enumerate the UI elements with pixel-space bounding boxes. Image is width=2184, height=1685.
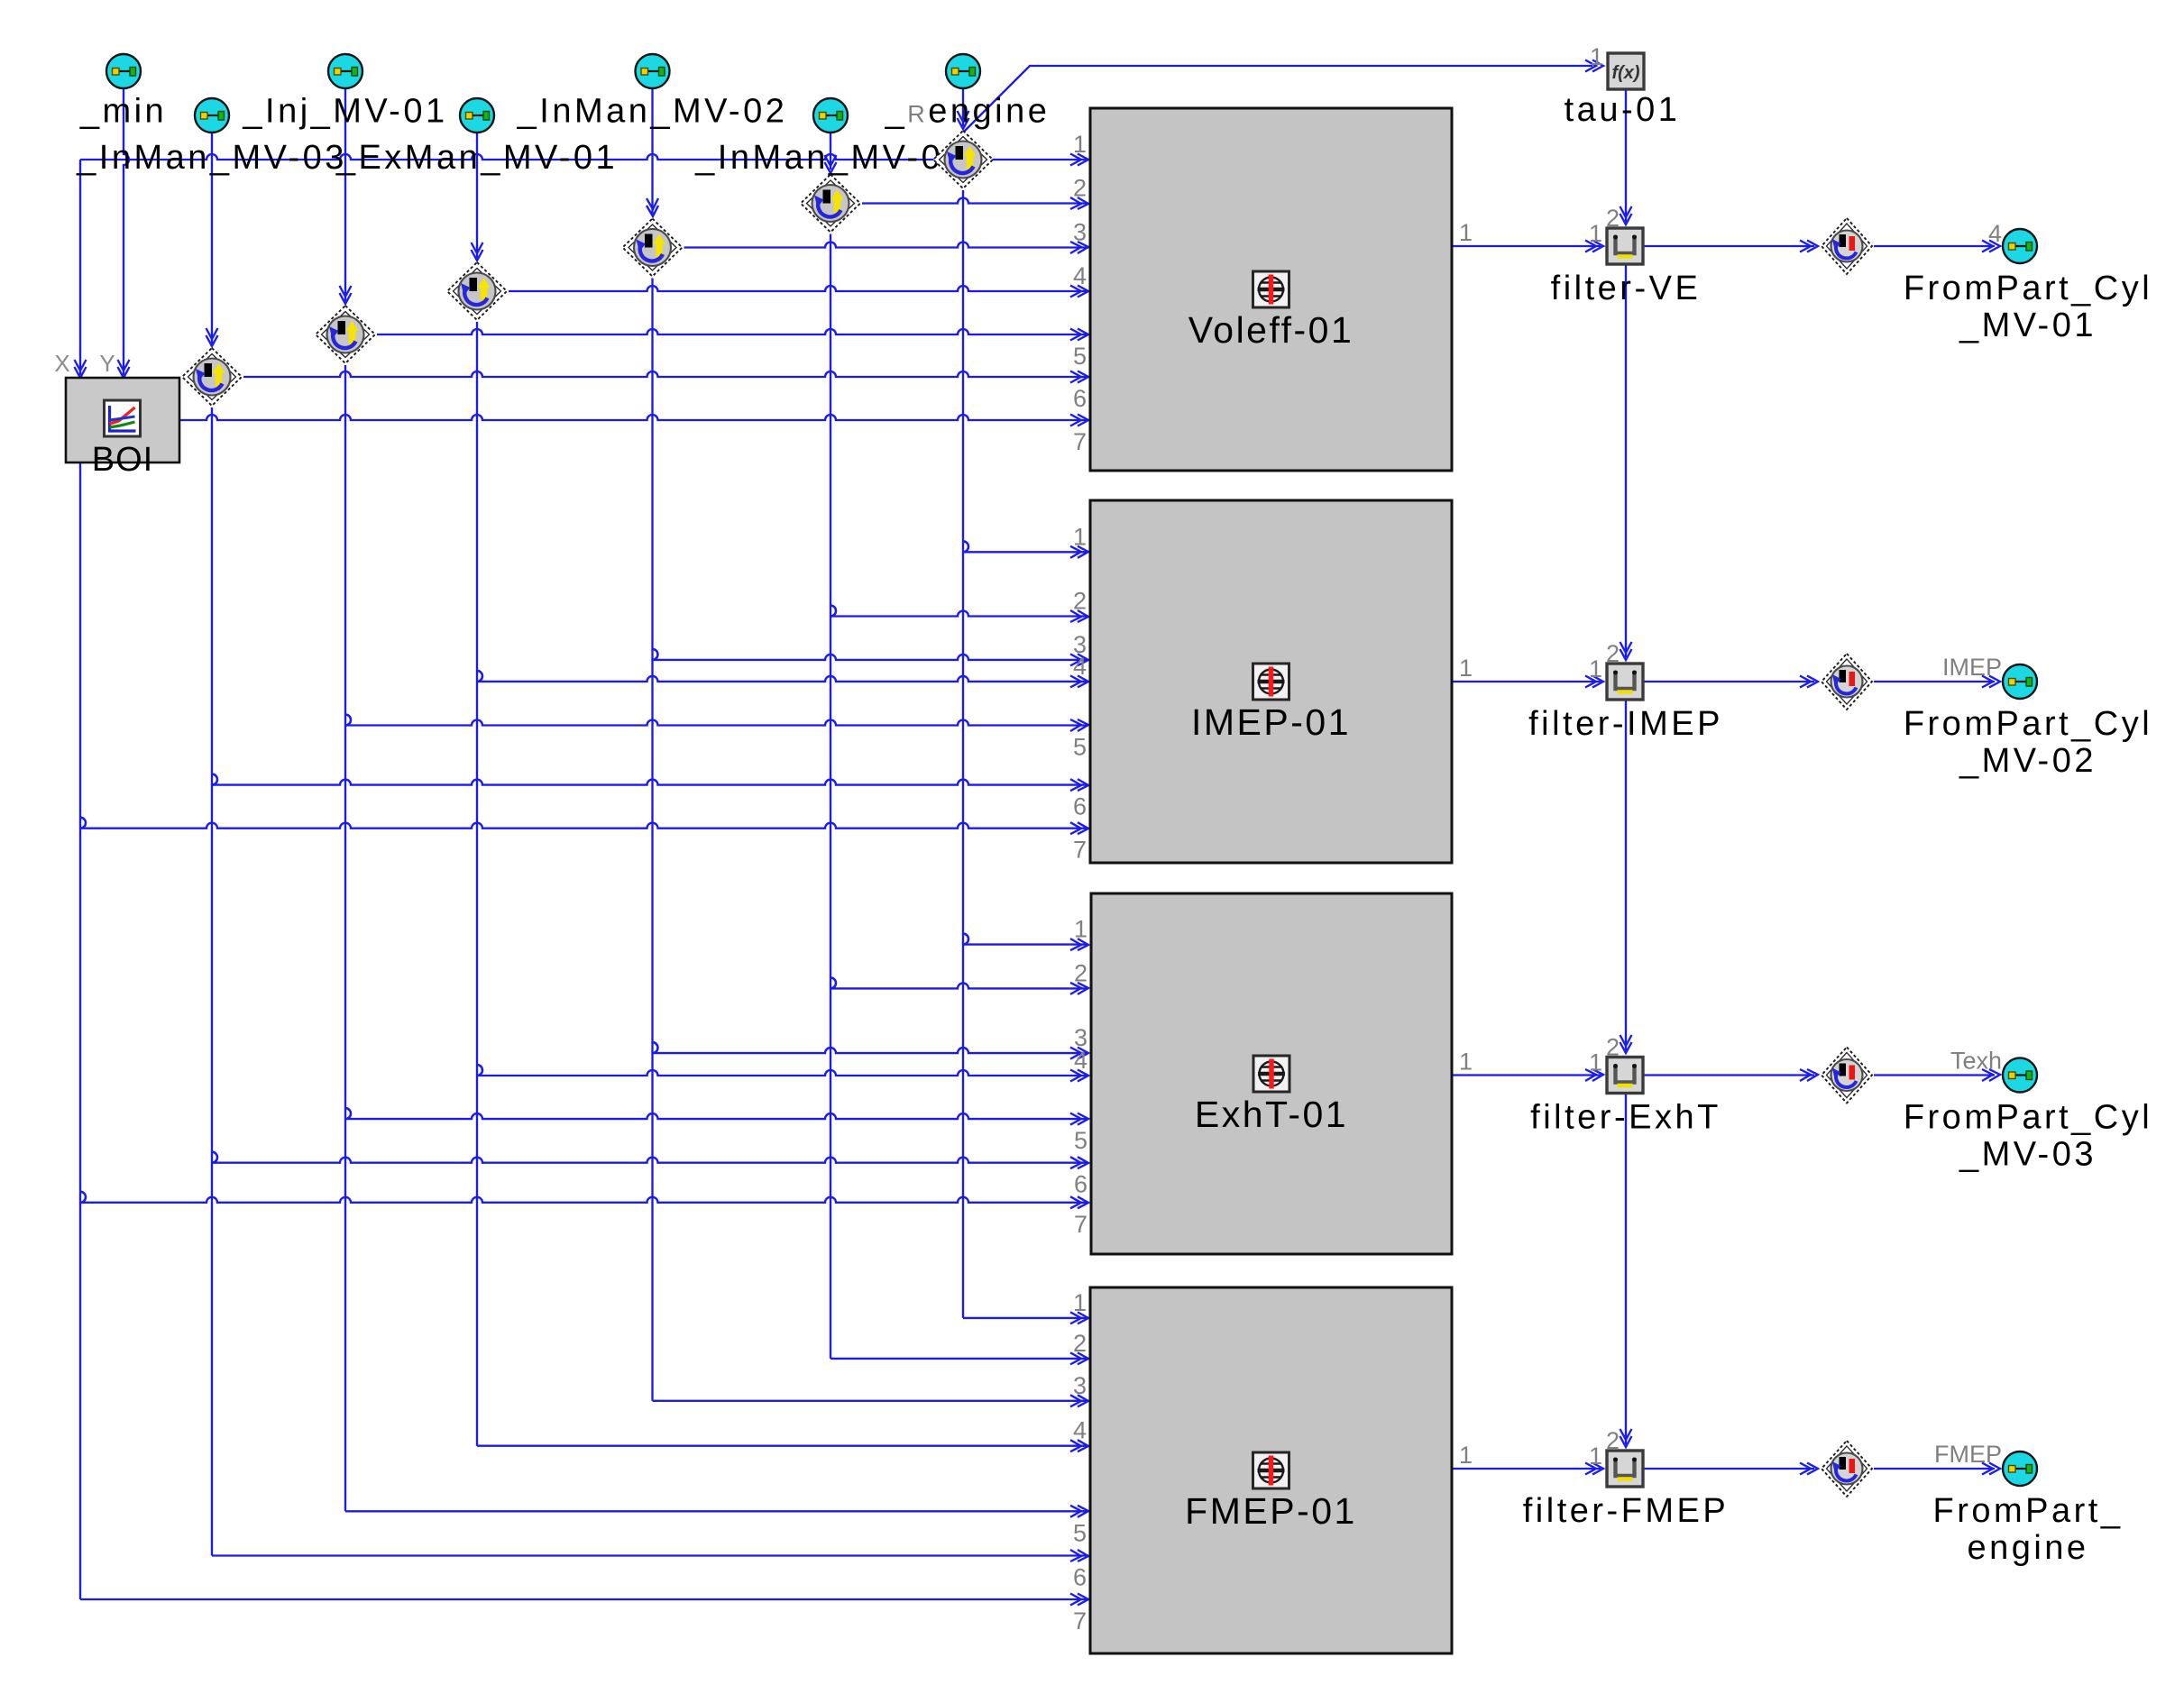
svg-text:1: 1 <box>1073 131 1087 158</box>
svg-text:3: 3 <box>1073 1372 1087 1399</box>
svg-text:Texh: Texh <box>1950 1048 2002 1075</box>
filter block filter-ExhT <box>1607 1058 1643 1094</box>
svg-text:2: 2 <box>1073 588 1087 615</box>
filter block filter-FMEP <box>1607 1451 1643 1487</box>
svg-text:Voleff-01: Voleff-01 <box>1188 309 1354 351</box>
svg-text:5: 5 <box>1073 343 1087 370</box>
wire: _Inj_MV-01 column from port to diamond <box>344 87 346 301</box>
svg-text:filter-ExhT: filter-ExhT <box>1530 1099 1721 1137</box>
wire: _min column down to BOI Y input <box>124 87 129 375</box>
svg-text:2: 2 <box>1606 640 1620 667</box>
svg-text:FMEP: FMEP <box>1934 1441 2002 1468</box>
svg-text:2: 2 <box>1073 1330 1087 1357</box>
wire: tau-01 output down to filter-VE <box>1625 88 1627 222</box>
svg-text:1: 1 <box>1589 1442 1602 1470</box>
svg-text:_min: _min <box>79 93 167 131</box>
wire: block output to filter-ExhT <box>1452 1074 1601 1076</box>
wire: _InMan_MV-03 column from port to diamond <box>211 132 213 343</box>
wire: diamond output row to Voleff port 4 (y=323.0) <box>509 286 1088 291</box>
svg-text:_MV-01: _MV-01 <box>1959 307 2097 344</box>
svg-text:1: 1 <box>1459 1049 1473 1076</box>
svg-text:IMEP-01: IMEP-01 <box>1191 701 1351 743</box>
wire: engine net row to Voleff port 1 (y=177) <box>80 154 1088 160</box>
svg-text:6: 6 <box>1074 1171 1087 1198</box>
wire: diamond output row to Voleff port 5 (y=371.0) <box>377 329 1088 334</box>
svg-text:_MV-02: _MV-02 <box>1959 742 2097 780</box>
svg-text:FromPart_Cyl: FromPart_Cyl <box>1904 270 2152 307</box>
input port engine <box>946 54 980 88</box>
svg-text:1: 1 <box>1590 43 1603 70</box>
wire: filter-ExhT to output converter <box>1643 1074 1814 1076</box>
svg-text:1: 1 <box>1589 220 1602 247</box>
svg-text:1: 1 <box>1459 655 1473 682</box>
wire: diamond output row to Voleff port 6 (y=418.0) <box>243 371 1088 377</box>
FromPart port (ExhT) <box>2003 1058 2037 1093</box>
svg-text:_InMan_MV-02: _InMan_MV-02 <box>517 93 788 131</box>
svg-text:X: X <box>54 350 69 377</box>
wire: BOI output to Voleff port 7 (y=466) <box>179 415 1088 420</box>
wire: column x=1068.0 branch to IMEP port 1 (y=612.3) <box>963 541 968 552</box>
block BOI <box>66 378 179 462</box>
svg-text:filter-IMEP: filter-IMEP <box>1528 705 1723 743</box>
wire: converter to FromPart port (ExhT) <box>1874 1074 1995 1076</box>
wire: column x=1068.0 branch to ExhT port 1 (y=1047.6) <box>963 934 968 945</box>
filter block filter-IMEP <box>1607 664 1643 700</box>
svg-text:5: 5 <box>1074 1127 1087 1154</box>
svg-text:_Rengine: _Rengine <box>885 93 1051 131</box>
wire: column x=89.0 branch to IMEP port 7 (y=918.7) <box>80 818 86 829</box>
svg-text:filter-FMEP: filter-FMEP <box>1523 1492 1730 1530</box>
input conversion diamond D3 <box>623 219 683 277</box>
svg-text:1: 1 <box>1589 1049 1602 1076</box>
svg-text:5: 5 <box>1073 734 1087 761</box>
wire: diamond output row to Voleff port 2 (y=225.5) <box>862 198 1088 204</box>
svg-text:_MV-03: _MV-03 <box>1959 1136 2097 1174</box>
svg-text:2: 2 <box>1606 1427 1620 1454</box>
input conversion diamond D2 <box>801 175 860 233</box>
wire: column x=921.0 branch to ExhT port 2 (y=1096.4) <box>830 977 836 988</box>
svg-text:7: 7 <box>1073 1607 1087 1635</box>
wire: column x=89 (engine net down-left branch, corner at y=177) <box>79 160 81 375</box>
wire: converter to FromPart port (VE) <box>1874 245 1995 247</box>
wire: column x=723.5 branch to IMEP port 3 (y=731.9) <box>653 649 658 660</box>
svg-text:Y: Y <box>99 350 115 377</box>
input port _InMan_MV-02 <box>636 54 670 88</box>
svg-text:_InMan_MV-03: _InMan_MV-03 <box>76 139 347 177</box>
FromPart port (VE) <box>2003 229 2037 263</box>
svg-text:engine: engine <box>1967 1529 2088 1567</box>
wire: tau net filter-IMEP to filter-ExhT <box>1625 700 1627 1050</box>
svg-text:4: 4 <box>1073 653 1087 680</box>
function block tau-01 <box>1608 53 1644 89</box>
wire: column x=723.5 branch to ExhT port 3 (y=1168.1) <box>653 1042 658 1053</box>
svg-text:1: 1 <box>1074 916 1087 943</box>
wire: _ExMan_MV-01 column from port to diamond <box>476 132 478 258</box>
input port _InMan_MV-04 <box>813 98 848 133</box>
wire: tau net filter-ExhT to filter-FMEP <box>1625 1094 1627 1445</box>
wire: block output to filter-IMEP <box>1452 681 1601 682</box>
svg-text:_ExMan_MV-01: _ExMan_MV-01 <box>335 139 618 177</box>
svg-text:2: 2 <box>1074 959 1087 986</box>
wire: tau net filter-VE to filter-IMEP <box>1625 264 1627 657</box>
block ExhT-01 <box>1091 893 1452 1254</box>
wire: column x=89.0 corner to FMEP port 7 (y=1774.0) <box>80 1598 1088 1600</box>
wire: column x=383.0 branch to IMEP port 5 (y=804.5) <box>345 715 351 726</box>
svg-text:6: 6 <box>1073 385 1087 412</box>
svg-text:1: 1 <box>1073 523 1087 550</box>
wire: diamond output row to Voleff port 3 (y=274.5) <box>684 243 1089 248</box>
svg-text:7: 7 <box>1073 837 1087 864</box>
svg-text:ExhT-01: ExhT-01 <box>1195 1094 1348 1135</box>
svg-text:4: 4 <box>1988 220 2002 247</box>
svg-text:tau-01: tau-01 <box>1565 91 1681 129</box>
wire: engine column from port to diamond <box>962 87 964 126</box>
wire: column x=235.0 corner to FMEP port 6 (y=1725.5) <box>212 1554 1088 1556</box>
input conversion diamond D6 <box>182 348 242 406</box>
svg-text:3: 3 <box>1073 219 1087 246</box>
wire: column x=235.0 branch to ExhT port 6 (y=1289.7) <box>212 1152 217 1163</box>
svg-text:FMEP-01: FMEP-01 <box>1185 1490 1357 1532</box>
input port _ExMan_MV-01 <box>460 98 494 133</box>
input port _Inj_MV-01 <box>328 54 362 88</box>
wire: converter to FromPart port (FMEP) <box>1874 1468 1995 1470</box>
wire: engine column below diamond <box>962 190 964 1318</box>
svg-text:7: 7 <box>1073 428 1087 455</box>
filter block filter-VE <box>1607 228 1643 264</box>
svg-text:6: 6 <box>1073 1564 1087 1591</box>
wire: column x=383.0 corner to FMEP port 5 (y=1676.3) <box>345 1510 1088 1512</box>
svg-text:1: 1 <box>1459 1442 1473 1469</box>
block FMEP-01 <box>1090 1287 1452 1653</box>
svg-text:4: 4 <box>1073 262 1087 289</box>
svg-text:1: 1 <box>1589 655 1602 682</box>
svg-text:4: 4 <box>1074 1047 1087 1074</box>
input conversion diamond D4 <box>447 262 507 320</box>
wire: converter to FromPart port (IMEP) <box>1874 681 1995 682</box>
wire: _InMan_MV-02 column below diamond <box>651 279 653 1401</box>
svg-text:1: 1 <box>1073 1289 1087 1316</box>
svg-text:1: 1 <box>1459 219 1473 246</box>
svg-text:f(x): f(x) <box>1611 63 1639 83</box>
svg-text:_Inj_MV-01: _Inj_MV-01 <box>242 93 447 131</box>
wire: column x=1068.0 corner to FMEP port 1 (y=1461.9) <box>963 1317 1088 1319</box>
svg-text:4: 4 <box>1073 1417 1087 1444</box>
wire: _Inj_MV-01 column below diamond <box>344 365 346 1511</box>
wire: _InMan_MV-02 column from port to diamond <box>651 87 653 214</box>
wire: _InMan_MV-04 column below diamond <box>830 234 831 1359</box>
svg-text:FromPart_Cyl: FromPart_Cyl <box>1904 1099 2152 1137</box>
wire: filter-FMEP to output converter <box>1643 1468 1814 1470</box>
svg-text:FromPart_Cyl: FromPart_Cyl <box>1904 705 2152 743</box>
wire: column x=529.0 branch to IMEP port 4 (y=755.9) <box>477 671 482 682</box>
svg-text:5: 5 <box>1073 1519 1087 1546</box>
output conversion diamond (ExhT) <box>1822 1048 1872 1103</box>
svg-text:2: 2 <box>1606 1034 1620 1061</box>
input port _min <box>106 54 141 88</box>
FromPart port (IMEP) <box>2003 664 2037 699</box>
svg-text:FromPart_: FromPart_ <box>1933 1492 2124 1530</box>
wire: engine branch diagonal to tau-01 <box>963 66 1592 133</box>
wire: column x=723.5 corner to FMEP port 3 (y=1553.8) <box>653 1400 1089 1402</box>
wire: filter-VE to output converter <box>1643 245 1814 247</box>
wire: column x=921.0 branch to IMEP port 2 (y=683.5) <box>830 606 836 617</box>
input conversion diamond D5 <box>316 306 375 363</box>
wire: column x=235.0 branch to IMEP port 6 (y=870.6) <box>212 774 217 785</box>
wire: block output to filter-VE <box>1452 245 1601 247</box>
svg-text:_InMan_MV-04: _InMan_MV-04 <box>694 139 966 177</box>
svg-text:BOI: BOI <box>92 441 153 479</box>
wire: block output to filter-FMEP <box>1452 1468 1601 1470</box>
block IMEP-01 <box>1090 500 1452 863</box>
output conversion diamond (IMEP) <box>1822 654 1872 710</box>
wire: _InMan_MV-03 column below diamond <box>211 408 213 1556</box>
wire: column x=921.0 corner to FMEP port 2 (y=1506.9) <box>830 1358 1088 1360</box>
block Voleff-01 <box>1090 108 1452 471</box>
svg-text:IMEP: IMEP <box>1942 654 2002 681</box>
output conversion diamond (VE) <box>1822 218 1872 274</box>
input port _InMan_MV-03 <box>195 98 229 133</box>
wire: column x=529.0 corner to FMEP port 4 (y=1603.7) <box>477 1445 1088 1447</box>
FromPart port (FMEP) <box>2003 1451 2037 1486</box>
input conversion diamond D1 (engine) <box>933 131 993 188</box>
svg-text:2: 2 <box>1606 205 1620 232</box>
output conversion diamond (FMEP) <box>1822 1441 1872 1497</box>
svg-text:6: 6 <box>1073 793 1087 820</box>
svg-text:7: 7 <box>1074 1211 1087 1238</box>
wire: filter-IMEP to output converter <box>1643 681 1814 682</box>
svg-text:2: 2 <box>1073 175 1087 202</box>
wire: _InMan_MV-04 column from port to diamond <box>830 132 831 169</box>
wire: _ExMan_MV-01 column below diamond <box>476 322 478 1446</box>
wire: column x=89.0 branch to ExhT port 7 (y=1333.8) <box>80 1192 86 1203</box>
wire: column x=383.0 branch to ExhT port 5 (y=1241.1) <box>345 1108 351 1119</box>
svg-text:filter-VE: filter-VE <box>1551 270 1702 307</box>
wire: column x=529.0 branch to ExhT port 4 (y=1193.0) <box>477 1065 482 1076</box>
